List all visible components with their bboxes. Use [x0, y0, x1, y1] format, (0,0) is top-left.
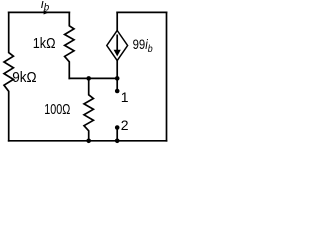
dependent current source U1 lead top	[116, 12, 118, 30]
wire top-right horizontal	[117, 11, 166, 13]
svg-text:1kΩ: 1kΩ	[33, 34, 56, 51]
svg-text:99ib: 99ib	[133, 37, 154, 55]
wire bottom horizontal	[9, 140, 167, 142]
svg-text:2: 2	[121, 117, 129, 133]
wire middle horizontal	[69, 77, 117, 79]
node junction dot (source bottom)	[115, 76, 120, 81]
branch current arrow i_b on top wire	[44, 10, 50, 14]
resistor R3 100Ohm	[84, 78, 93, 140]
resistor R1 1kOhm	[65, 12, 74, 78]
current source arrow (inside diamond, pointing down)	[116, 35, 118, 52]
terminal 2 dot	[115, 125, 120, 130]
terminal 2 stub	[116, 128, 118, 141]
terminal 1 stub	[116, 78, 118, 91]
terminal 1 dot	[115, 89, 120, 94]
node junction dot (terminal 2 bottom)	[115, 139, 120, 144]
node junction dot (100 ohm top)	[86, 76, 91, 81]
svg-text:100Ω: 100Ω	[44, 100, 70, 117]
wire right vertical	[166, 12, 168, 140]
wire top-left horizontal	[9, 11, 70, 13]
resistor R2 9kOhm	[4, 12, 13, 140]
svg-text:9kΩ: 9kΩ	[12, 69, 37, 86]
node junction dot (100 ohm bottom)	[86, 139, 91, 144]
dependent current source U1 diamond	[107, 31, 128, 61]
dependent current source U1 lead bottom	[116, 61, 118, 79]
svg-text:1: 1	[121, 89, 129, 105]
